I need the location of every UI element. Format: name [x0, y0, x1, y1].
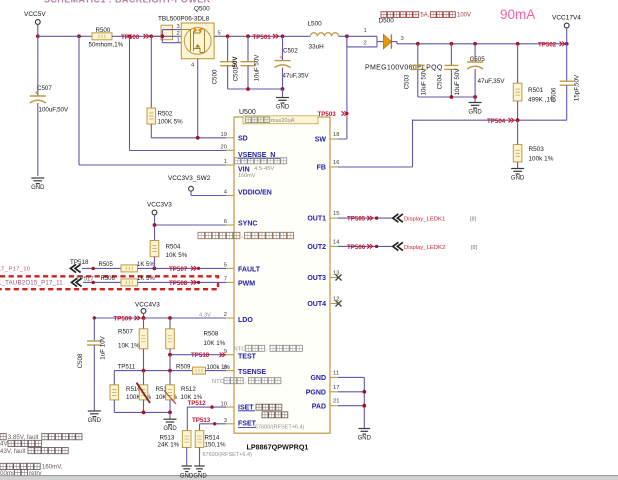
- svg-text:[8]: [8]: [470, 217, 477, 223]
- node LDO corner: [93, 316, 96, 319]
- node C501 junction: [246, 34, 250, 38]
- capacitor C500: [227, 36, 229, 61]
- svg-text:TP510: TP510: [191, 352, 210, 359]
- svg-text:SD: SD: [238, 135, 248, 142]
- svg-text:2: 2: [364, 41, 367, 47]
- capacitor C508: [93, 318, 95, 341]
- ground under output caps: [474, 97, 476, 103]
- node C502 bottom junction: [281, 87, 285, 91]
- node R511 bottom junction: [142, 411, 146, 415]
- svg-text:21: 21: [333, 399, 339, 405]
- svg-text:3: 3: [177, 24, 180, 30]
- svg-text:NTC: NTC: [234, 347, 246, 353]
- svg-text:VCC5V: VCC5V: [24, 11, 46, 18]
- svg-text:Display_LEDK1: Display_LEDK1: [404, 217, 445, 223]
- svg-text:[8]: [8]: [471, 245, 478, 251]
- svg-text:2: 2: [224, 312, 227, 318]
- wire R504 to FAULT line: [154, 257, 156, 269]
- svg-text:U500: U500: [239, 109, 256, 116]
- svg-text:OUT2: OUT2: [307, 244, 326, 251]
- pin 8 TSENSE of U500: [226, 370, 234, 372]
- svg-text:VDDIO/EN: VDDIO/EN: [238, 190, 272, 197]
- wire OUT2 to LED connector: [338, 245, 393, 247]
- node C505 bottom junction: [473, 95, 477, 99]
- node TP518 marker: [92, 267, 95, 270]
- svg-text:OUT3: OUT3: [307, 275, 326, 282]
- svg-text:4.3V: 4.3V: [199, 313, 211, 319]
- body diode mark of Q500: [194, 28, 202, 33]
- svg-text:GND: GND: [358, 435, 372, 441]
- node R501 junction: [516, 42, 520, 46]
- svg-text:10uF 50V: 10uF 50V: [254, 54, 261, 82]
- ground under PAD bus: [358, 428, 370, 430]
- svg-text:100V: 100V: [457, 13, 471, 19]
- svg-text:5: 5: [224, 263, 227, 269]
- svg-text:R508: R508: [204, 331, 219, 338]
- pin 21 PAD of U500: [330, 405, 338, 407]
- svg-text:1: 1: [177, 38, 180, 44]
- svg-text:TP508: TP508: [169, 280, 188, 287]
- wire Q500 drain out: [214, 35, 228, 37]
- svg-text:TP502: TP502: [538, 41, 557, 48]
- pin 12 OUT4 of U500: [330, 303, 338, 305]
- svg-text:VCC3V3_SW2: VCC3V3_SW2: [168, 175, 211, 182]
- svg-text:10uF 50V: 10uF 50V: [421, 68, 428, 96]
- wire FSET line: [200, 423, 227, 425]
- pin 15 OUT1 of U500: [330, 217, 338, 219]
- svg-text:10K 5%: 10K 5%: [166, 252, 188, 259]
- resistor R514: [195, 431, 204, 448]
- svg-text:FSET: FSET: [238, 421, 257, 428]
- svg-text:TP511: TP511: [118, 364, 136, 371]
- node TP517 marker: [92, 281, 95, 284]
- annotation current limit resistor: [256, 404, 282, 410]
- node R511 top junction: [142, 369, 146, 373]
- svg-text:C503: C503: [404, 74, 411, 89]
- resistor R503: [517, 120, 519, 144]
- node C503 junction: [416, 42, 420, 46]
- svg-text:OUT4: OUT4: [307, 301, 326, 308]
- svg-text:VCC3V3: VCC3V3: [147, 202, 172, 209]
- svg-text:R504: R504: [166, 244, 181, 251]
- wire cap bank bottom rail: [228, 88, 283, 90]
- svg-text:150,1%: 150,1%: [205, 442, 226, 449]
- transistor Q500 source pin box: [161, 25, 173, 40]
- svg-text:R503: R503: [529, 146, 545, 153]
- svg-text:15: 15: [333, 211, 339, 217]
- svg-text:5: 5: [218, 31, 221, 37]
- wire L500 to switch node: [339, 35, 377, 37]
- svg-text:1_TAUB2O15_P17_11: 1_TAUB2O15_P17_11: [0, 279, 63, 286]
- svg-text:LT_P17_10: LT_P17_10: [0, 266, 30, 272]
- svg-text:3: 3: [224, 418, 227, 424]
- dashed DNP box around PWM line: [0, 276, 218, 289]
- svg-text:4V: 4V: [0, 441, 8, 448]
- svg-text:20: 20: [221, 145, 227, 151]
- svg-text:GND: GND: [180, 473, 194, 479]
- wire TEST line: [170, 354, 226, 356]
- svg-text:max20uA: max20uA: [271, 118, 295, 124]
- wire GND/PGND/PAD bus: [338, 376, 364, 378]
- svg-text:3: 3: [401, 36, 404, 42]
- svg-text:VCC17V4: VCC17V4: [552, 15, 581, 22]
- no-connect X on OUT3: [336, 275, 342, 281]
- node C501 bottom junction: [246, 87, 250, 91]
- svg-text:R509: R509: [176, 365, 191, 371]
- svg-text:D500: D500: [379, 18, 395, 25]
- wire divider bottom rail: [114, 411, 170, 413]
- svg-text:10K 1%: 10K 1%: [118, 343, 140, 350]
- connector chevron PWM input: [72, 278, 82, 286]
- annotation note line 1: [0, 434, 6, 440]
- svg-text:C500: C500: [212, 69, 219, 84]
- svg-text:TP512: TP512: [188, 400, 207, 407]
- svg-text:C508: C508: [77, 353, 84, 368]
- node SD-gate junction: [196, 136, 200, 140]
- resistor R507: [143, 318, 145, 329]
- capacitor C501: [247, 36, 249, 61]
- node R504 junction on FAULT: [153, 267, 157, 271]
- svg-text:GND: GND: [276, 104, 290, 110]
- svg-text:OUT1: OUT1: [307, 216, 326, 223]
- svg-text:TP505: TP505: [347, 216, 366, 223]
- svg-text:GND: GND: [310, 375, 326, 382]
- svg-text:TP501: TP501: [253, 34, 272, 41]
- svg-text:R502: R502: [158, 111, 173, 118]
- node PAD junction: [362, 404, 366, 408]
- node VIN tap junction: [77, 34, 81, 38]
- svg-text:R512: R512: [181, 386, 196, 393]
- svg-text:4.5-45V: 4.5-45V: [254, 166, 274, 172]
- node C504 junction: [450, 42, 454, 46]
- svg-text:17: 17: [333, 385, 339, 391]
- wire Q500 source pins parallel jog: [161, 30, 163, 43]
- wire OUT1 to LED connector: [338, 217, 393, 219]
- svg-text:LDO: LDO: [238, 317, 253, 324]
- svg-text:R507: R507: [118, 329, 133, 336]
- svg-text:GND: GND: [193, 473, 207, 479]
- resistor R512 with DNP slash: [169, 371, 171, 385]
- wire PWM input: [83, 281, 121, 283]
- connector chevron Display_LEDK2: [393, 242, 403, 250]
- svg-text:C502: C502: [283, 48, 298, 55]
- svg-text:FB: FB: [317, 165, 326, 172]
- svg-text:1K 5%: 1K 5%: [137, 262, 155, 268]
- pin 14 OUT2 of U500: [330, 245, 338, 247]
- resistor R511 with DNP slash: [143, 371, 145, 385]
- svg-text:TP500: TP500: [121, 34, 140, 41]
- wire SW column down to pin 18: [346, 36, 348, 139]
- svg-text:R506: R506: [101, 276, 116, 282]
- svg-text:NTC: NTC: [212, 379, 224, 385]
- node R507 junction: [142, 316, 146, 320]
- svg-text:6: 6: [224, 219, 227, 225]
- svg-text:TEST: TEST: [238, 353, 257, 360]
- svg-text:Q500: Q500: [194, 6, 210, 13]
- ground under cap bank: [282, 89, 284, 98]
- svg-text:PMEG100V060ELPQQ: PMEG100V060ELPQQ: [365, 65, 443, 72]
- wire VSENSE_N drop: [129, 36, 131, 150]
- wire FAULT input: [82, 267, 121, 269]
- annotation SYNC spread spectrum: [198, 232, 240, 238]
- svg-text:TSENSE: TSENSE: [238, 369, 266, 376]
- resistor R510: [113, 371, 115, 385]
- svg-text:15pF,50V: 15pF,50V: [574, 74, 581, 101]
- svg-text:SW: SW: [315, 137, 327, 144]
- svg-text:67600/(RFSET+6.4): 67600/(RFSET+6.4): [203, 452, 253, 458]
- wire top rail left segment: [38, 35, 92, 37]
- svg-text:47uF,35V: 47uF,35V: [478, 78, 506, 85]
- pin 18 SW of U500: [330, 138, 338, 140]
- svg-text:GND: GND: [88, 418, 102, 424]
- wire VCC3V3 to SYNC: [154, 215, 156, 240]
- resistor R508: [169, 318, 171, 329]
- svg-text:50mhom,1%: 50mhom,1%: [89, 41, 124, 48]
- svg-text:LP8867QPWPRQ1: LP8867QPWPRQ1: [247, 443, 309, 452]
- node VSENSE tap junction: [128, 34, 132, 38]
- node C502 junction: [281, 34, 285, 38]
- svg-text:C504: C504: [437, 74, 444, 89]
- svg-text:100uF,50V: 100uF,50V: [39, 107, 69, 114]
- svg-text:43V, fault: 43V, fault: [0, 448, 26, 455]
- svg-text:33uH: 33uH: [309, 44, 325, 51]
- ground under R513: [182, 465, 192, 467]
- node R508 junction: [168, 316, 172, 320]
- svg-text:TP506: TP506: [347, 244, 366, 251]
- svg-text:FAULT: FAULT: [238, 266, 261, 273]
- wire R506 to PWM pin: [138, 281, 227, 283]
- wire VCC5V to rail: [37, 25, 39, 37]
- svg-text:C507: C507: [37, 85, 52, 92]
- svg-text:10: 10: [221, 401, 227, 407]
- feedback line TP504: [413, 119, 567, 121]
- annotation quiescent current box: [243, 116, 318, 124]
- svg-text:10uF 50V: 10uF 50V: [454, 68, 461, 96]
- svg-text:50V: 50V: [232, 56, 239, 68]
- svg-text:TP504: TP504: [487, 118, 506, 125]
- transistor Q500 body: [181, 23, 214, 59]
- bottom window bar: [0, 476, 618, 480]
- underline of VSENSE_N: [238, 157, 280, 159]
- svg-text:PWM: PWM: [238, 280, 255, 287]
- connector chevron Display_LEDK1: [393, 214, 403, 222]
- capacitor C507: [37, 36, 39, 96]
- ground under divider: [169, 412, 171, 419]
- capacitor C503: [417, 44, 419, 66]
- annotation note line 4: [0, 463, 40, 469]
- svg-text:R513: R513: [160, 435, 175, 442]
- svg-text:R514: R514: [205, 435, 220, 442]
- svg-text:GND: GND: [468, 109, 482, 115]
- node TP504 junction: [516, 118, 520, 122]
- node TEST junction: [168, 353, 172, 357]
- pin 10 ISET of U500: [226, 406, 234, 408]
- pin 17 PGND of U500: [330, 391, 338, 393]
- wire rail across cap bank: [228, 35, 311, 37]
- svg-text:100k 1%: 100k 1%: [207, 365, 231, 371]
- svg-text:,: ,: [241, 233, 243, 240]
- wire R500 to Q500: [112, 35, 162, 37]
- node C500 junction: [226, 34, 230, 38]
- svg-text:L500: L500: [308, 21, 323, 28]
- svg-text:PAD: PAD: [312, 403, 326, 410]
- node SYNC junction: [153, 223, 157, 227]
- svg-text:C501: C501: [233, 66, 240, 81]
- svg-text:1uF 10V: 1uF 10V: [100, 335, 107, 359]
- capacitor C504: [450, 44, 452, 66]
- resistor R501: [517, 44, 519, 83]
- svg-text:1: 1: [224, 159, 227, 165]
- ground under R514: [194, 465, 204, 467]
- svg-text:GND: GND: [511, 175, 525, 181]
- wire Q500 gate down to SD line: [197, 59, 199, 138]
- ground under C507: [31, 177, 44, 179]
- pin 4 VDDIO/EN of U500: [226, 195, 234, 197]
- svg-text:160mV: 160mV: [238, 173, 256, 179]
- pin 7 PWM of U500: [226, 281, 234, 283]
- pin 20 VSENSE_N of U500: [226, 149, 234, 151]
- pin 3 FSET of U500: [226, 423, 234, 425]
- no-connect X on OUT4: [336, 301, 342, 307]
- annotation VSENSE chinese: [235, 158, 287, 164]
- svg-text:GND: GND: [163, 426, 177, 432]
- node C504 bottom junction: [450, 95, 454, 99]
- svg-text:10K 1%: 10K 1%: [204, 340, 226, 347]
- node Q500 jog junction: [161, 34, 165, 38]
- pin 9 TEST of U500: [226, 354, 234, 356]
- pin 13 OUT3 of U500: [330, 277, 338, 279]
- svg-text:VCC4V3: VCC4V3: [135, 302, 160, 309]
- pin 11 GND of U500: [330, 376, 338, 378]
- node R512 top junction: [168, 369, 172, 373]
- svg-text:16: 16: [333, 160, 339, 166]
- node rail-left junction: [36, 34, 40, 38]
- wire TSENSE line: [169, 355, 171, 371]
- pin 19 SD of U500: [226, 137, 234, 139]
- svg-text:5A,: 5A,: [420, 13, 429, 19]
- svg-text:SYNC: SYNC: [238, 220, 257, 227]
- svg-text:100K 5%: 100K 5%: [158, 119, 184, 126]
- underline of ISET: [238, 410, 255, 412]
- wire boost output rail: [391, 41, 397, 43]
- svg-text:11: 11: [333, 370, 339, 376]
- resistor R513: [182, 431, 191, 448]
- pin 1 VIN of U500: [226, 164, 234, 166]
- svg-text:1: 1: [364, 28, 367, 34]
- pin 6 SYNC of U500: [226, 224, 234, 226]
- svg-text:24K 1%: 24K 1%: [158, 442, 180, 449]
- svg-text:7: 7: [224, 277, 227, 283]
- svg-text:SCHEMATIC1 : BACKLIGHT-POWER: SCHEMATIC1 : BACKLIGHT-POWER: [44, 0, 211, 5]
- svg-text:90mA: 90mA: [500, 7, 535, 22]
- svg-text:19: 19: [221, 132, 227, 138]
- svg-text:R505: R505: [99, 262, 114, 268]
- wire ISET line: [187, 406, 226, 408]
- svg-text:Display_LEDK2: Display_LEDK2: [404, 245, 445, 251]
- annotation switching frequency: [262, 412, 288, 418]
- resistor R504: [150, 241, 159, 257]
- svg-text:TBL500P06-3DL8: TBL500P06-3DL8: [158, 16, 210, 23]
- svg-text:TP507: TP507: [169, 266, 188, 273]
- wire R505 to FAULT pin: [138, 267, 227, 269]
- svg-text:GND: GND: [31, 185, 45, 191]
- capacitor C506: [566, 44, 568, 81]
- svg-text:2: 2: [177, 31, 180, 37]
- svg-text:TP513: TP513: [192, 417, 211, 424]
- wire output caps bottom rail: [418, 96, 475, 98]
- ground under C508: [88, 410, 101, 412]
- svg-text:PGND: PGND: [306, 389, 326, 396]
- wire VDDIO/EN: [190, 191, 192, 195]
- pin 2 LDO of U500: [226, 317, 234, 319]
- underline of FSET: [238, 427, 256, 429]
- svg-text:C506: C506: [551, 87, 558, 102]
- svg-text:R501: R501: [528, 87, 544, 94]
- wire R502 to SD line: [150, 124, 152, 138]
- pin 5 FAULT of U500: [226, 267, 234, 269]
- capacitor C502: [282, 36, 284, 60]
- svg-text:160mV,: 160mV,: [42, 464, 63, 471]
- node PGND junction: [362, 390, 366, 394]
- pin 16 FB of U500: [330, 166, 338, 168]
- svg-text:18: 18: [333, 132, 339, 138]
- wire VIN drop: [78, 36, 80, 165]
- svg-text:14: 14: [333, 239, 340, 245]
- node C505 junction: [473, 42, 477, 46]
- svg-text:TP509: TP509: [114, 316, 133, 323]
- svg-text:67600/(RFSET+6.4): 67600/(RFSET+6.4): [255, 425, 305, 431]
- node R512 bottom junction: [168, 411, 172, 415]
- annotation max current: [381, 12, 419, 18]
- ground under R503: [511, 168, 524, 170]
- connector chevron FAULT input: [71, 264, 81, 272]
- wire LDO line: [94, 317, 226, 319]
- svg-text:100k 1%: 100k 1%: [529, 156, 554, 163]
- resistor R502: [150, 36, 152, 108]
- node C506 junction: [565, 42, 569, 46]
- node TP500 junction: [149, 34, 153, 38]
- node SW junction: [345, 34, 349, 38]
- svg-text:1K 5%: 1K 5%: [137, 276, 155, 282]
- svg-text:47uF,35V: 47uF,35V: [283, 73, 310, 80]
